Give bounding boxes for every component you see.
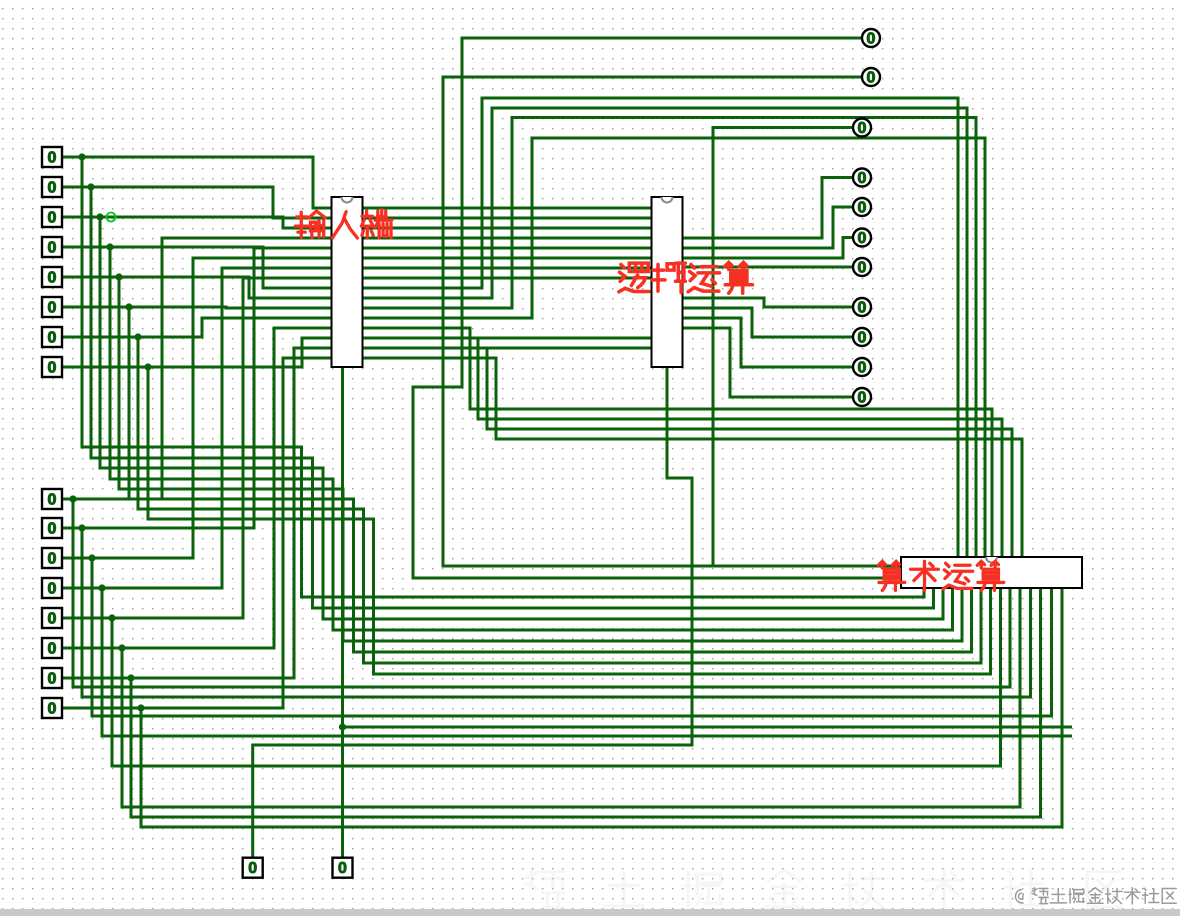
svg-text:0: 0 (48, 210, 57, 227)
svg-text:0: 0 (48, 360, 57, 377)
svg-text:0: 0 (48, 180, 57, 197)
svg-text:0: 0 (48, 240, 57, 257)
svg-text:0: 0 (48, 581, 57, 598)
svg-text:0: 0 (858, 170, 867, 187)
svg-text:0: 0 (858, 330, 867, 347)
svg-text:0: 0 (48, 492, 57, 509)
svg-text:0: 0 (858, 200, 867, 217)
svg-text:0: 0 (338, 860, 347, 877)
svg-text:0: 0 (867, 31, 876, 48)
svg-text:0: 0 (858, 300, 867, 317)
svg-text:0: 0 (48, 671, 57, 688)
svg-text:0: 0 (858, 360, 867, 377)
svg-text:0: 0 (48, 701, 57, 718)
svg-text:0: 0 (867, 70, 876, 87)
svg-text:0: 0 (858, 230, 867, 247)
svg-text:0: 0 (858, 260, 867, 277)
svg-text:0: 0 (48, 521, 57, 538)
svg-text:0: 0 (858, 390, 867, 407)
svg-text:0: 0 (48, 330, 57, 347)
svg-text:0: 0 (48, 641, 57, 658)
svg-text:0: 0 (48, 551, 57, 568)
svg-text:0: 0 (248, 860, 257, 877)
svg-text:0: 0 (48, 300, 57, 317)
svg-text:0: 0 (48, 150, 57, 167)
svg-text:0: 0 (48, 270, 57, 287)
svg-text:0: 0 (858, 120, 867, 137)
svg-text:0: 0 (48, 611, 57, 628)
